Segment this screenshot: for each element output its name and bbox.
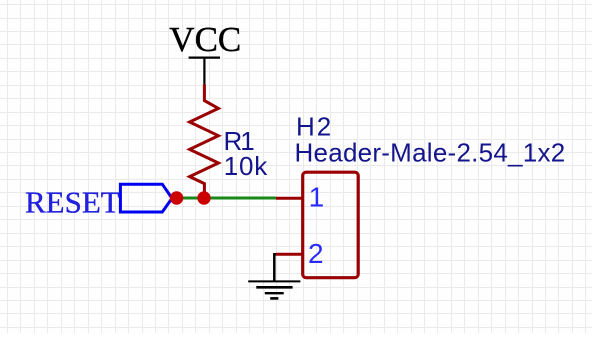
svg-text:1: 1 [309, 182, 325, 213]
svg-text:VCC: VCC [169, 20, 241, 59]
svg-text:2: 2 [308, 238, 324, 269]
svg-text:Header-Male-2.54_1x2: Header-Male-2.54_1x2 [295, 138, 566, 168]
svg-text:10k: 10k [224, 151, 269, 181]
svg-text:RESET: RESET [25, 184, 120, 219]
